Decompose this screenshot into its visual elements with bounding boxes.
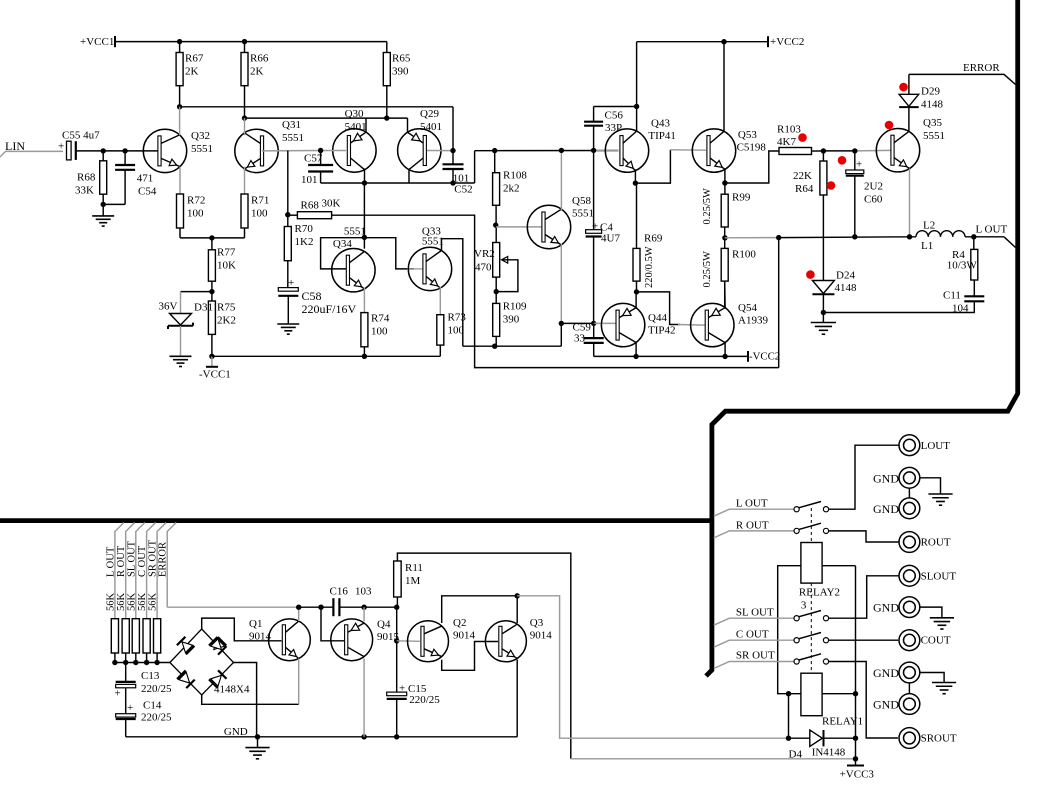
wire relay coil node <box>786 691 791 696</box>
diode D29 4148 <box>908 74 910 94</box>
svg-text:33P: 33P <box>605 122 622 134</box>
wire: to Q4 base <box>321 607 344 641</box>
capacitor C56 33P <box>591 148 596 153</box>
bridge diode top-right <box>214 639 225 650</box>
wire Q29 emitter to rail <box>407 118 409 133</box>
wire Q29 collector <box>408 169 410 184</box>
capacitor C4 4U7 electrolytic <box>593 150 595 229</box>
resistor R73 100 <box>437 315 444 345</box>
wire: mirror node to Q33 base <box>364 238 414 269</box>
wire Q32 collector <box>179 107 181 135</box>
svg-text:471: 471 <box>137 173 154 185</box>
ground (input) <box>101 202 106 207</box>
wire: Q2 base <box>397 640 420 643</box>
wire: drop R OUT <box>126 523 135 619</box>
wire: 56K common node <box>115 662 170 664</box>
capacitor C54 471 <box>124 151 126 165</box>
connector SLOUT <box>899 565 920 586</box>
wire Q35 emitter <box>909 169 911 237</box>
wire Q4 emitter top <box>363 607 365 621</box>
svg-text:Q35: Q35 <box>923 117 942 129</box>
resistor R65 <box>386 42 388 53</box>
svg-text:2U2: 2U2 <box>864 181 883 193</box>
svg-text:220/0.5W: 220/0.5W <box>644 246 655 288</box>
svg-text:-VCC1: -VCC1 <box>199 369 231 381</box>
connector GND 3 <box>899 597 920 618</box>
wire Q31 collector <box>244 118 246 135</box>
svg-text:SROUT: SROUT <box>921 733 957 745</box>
power -VCC2 terminal <box>747 351 749 362</box>
svg-text:5401: 5401 <box>345 121 367 133</box>
transistor Q1 9014 <box>269 619 311 661</box>
svg-text:101: 101 <box>301 174 318 186</box>
svg-text:103: 103 <box>355 586 372 598</box>
svg-text:2K: 2K <box>250 66 264 78</box>
svg-text:Q1: Q1 <box>249 618 262 630</box>
resistor R74 100 <box>361 313 368 347</box>
transistor Q44 TIP42 <box>601 303 644 346</box>
svg-text:5551: 5551 <box>923 130 945 142</box>
wire: detector line y=607 <box>299 606 333 608</box>
svg-text:220/25: 220/25 <box>141 683 172 695</box>
resistor R4 10/3W <box>973 237 975 250</box>
svg-text:220uF/16V: 220uF/16V <box>302 302 357 316</box>
capacitor C14 220/25 <box>125 688 127 714</box>
wire Q30 emitter to rail <box>365 118 367 133</box>
svg-text:C13: C13 <box>141 670 160 682</box>
svg-text:SR OUT: SR OUT <box>736 650 775 662</box>
test point red dot <box>798 133 807 142</box>
svg-text:+VCC1: +VCC1 <box>80 36 114 48</box>
capacitor C15 220/25 electrolytic <box>387 692 407 696</box>
switch R OUT <box>714 531 794 538</box>
svg-text:4148: 4148 <box>835 282 858 294</box>
connector SROUT <box>899 728 920 749</box>
ground (C58) <box>287 296 289 324</box>
switch SL OUT <box>714 618 794 625</box>
capacitor C60 2U2 electrolytic <box>854 151 856 170</box>
svg-text:4U7: 4U7 <box>601 233 620 245</box>
svg-text:C5198: C5198 <box>737 142 767 154</box>
wire Q29 base <box>427 150 453 152</box>
svg-text:+: + <box>856 159 862 171</box>
wire gnd1 <box>920 478 941 494</box>
transistor Q35 5551 <box>876 129 919 172</box>
wire: ERROR line <box>909 74 1016 84</box>
svg-text:56K: 56K <box>126 593 137 612</box>
capacitor C59 33 <box>593 323 595 338</box>
svg-text:470: 470 <box>475 262 492 274</box>
ground (conn1) <box>928 493 952 495</box>
svg-text:Q29: Q29 <box>420 108 439 120</box>
zener diode D31 36V <box>181 291 212 293</box>
svg-text:GND: GND <box>873 666 899 680</box>
test point red dot <box>885 121 894 130</box>
svg-text:R71: R71 <box>251 195 269 207</box>
svg-text:TIP42: TIP42 <box>648 325 676 337</box>
wire: drop SL OUT <box>136 523 145 619</box>
svg-text:R99: R99 <box>732 192 751 204</box>
VR2 wiper <box>502 257 508 264</box>
svg-text:SL OUT: SL OUT <box>736 607 774 619</box>
thick board outline bottom-left <box>0 518 712 523</box>
svg-text:D24: D24 <box>836 270 855 282</box>
transistor Q31 5551 (mirrored) <box>235 129 278 172</box>
svg-text:56K: 56K <box>105 593 116 612</box>
svg-text:R74: R74 <box>371 313 390 325</box>
wire: cascode rail y=118 <box>245 117 408 119</box>
svg-text:C56: C56 <box>605 110 624 122</box>
resistor R66 <box>244 42 246 53</box>
ground (conn3) <box>930 617 954 619</box>
svg-text:100: 100 <box>187 208 204 220</box>
wire Q32 emitter <box>179 167 181 194</box>
wire relay2 left <box>778 566 801 694</box>
node: R77/R75/D31 <box>211 281 213 301</box>
svg-text:2k2: 2k2 <box>503 183 520 195</box>
wire Q34 emitter <box>363 288 365 313</box>
svg-text:L1: L1 <box>921 240 933 252</box>
wire Q4 collector <box>363 659 365 737</box>
svg-text:R100: R100 <box>732 249 756 261</box>
wire: -VCC2 rail <box>594 355 748 357</box>
resistor R75 2K2 <box>208 301 215 334</box>
svg-text:Q32: Q32 <box>191 130 210 142</box>
svg-text:220/25: 220/25 <box>141 712 172 724</box>
wire Q3 emitter <box>516 660 518 737</box>
svg-text:5551: 5551 <box>191 143 213 155</box>
svg-text:390: 390 <box>503 314 520 326</box>
svg-text:+: + <box>592 221 598 233</box>
svg-text:C60: C60 <box>864 194 883 206</box>
svg-text:Q30: Q30 <box>345 108 364 120</box>
svg-text:VR2: VR2 <box>474 248 495 260</box>
svg-text:30K: 30K <box>322 198 341 210</box>
svg-text:C58: C58 <box>302 289 322 303</box>
wire Q54 emitter <box>724 307 726 310</box>
svg-text:5551: 5551 <box>282 132 304 144</box>
svg-text:5551: 5551 <box>572 208 594 220</box>
svg-text:C OUT: C OUT <box>137 545 148 577</box>
transistor Q33 5551 <box>408 247 451 290</box>
svg-text:390: 390 <box>392 66 409 78</box>
transistor Q4 9015 <box>331 619 373 661</box>
ground (conn4) <box>932 682 956 684</box>
wire +VCC2 drop <box>636 42 638 107</box>
transistor Q53 C5198 <box>692 129 735 172</box>
wire Q44 emitter <box>635 343 637 357</box>
svg-text:33: 33 <box>574 333 586 345</box>
wire Q44 collector <box>635 292 637 308</box>
wire Q1 emitter <box>298 659 300 705</box>
transistor Q3 9014 <box>485 621 526 662</box>
svg-text:Q44: Q44 <box>648 312 667 324</box>
connector LOUT <box>899 435 920 456</box>
svg-text:100: 100 <box>448 325 465 337</box>
wire Q58 emitter <box>560 244 562 324</box>
svg-text:+: + <box>127 702 133 714</box>
svg-text:D4: D4 <box>789 749 803 761</box>
wire: bottom GND line <box>126 736 518 738</box>
connector GND 1 <box>899 467 920 488</box>
bridge diode bottom-right <box>211 675 222 686</box>
connector GND 5 <box>899 694 920 715</box>
svg-text:+: + <box>399 683 405 695</box>
wire Q54 collector <box>724 343 726 357</box>
resistor R109 390 <box>493 303 500 336</box>
svg-text:5551: 5551 <box>422 236 444 248</box>
resistor 56K <box>143 619 150 653</box>
wire: VCC3 line <box>571 758 856 760</box>
wire: R108 to Q58 base <box>496 226 542 228</box>
svg-text:1M: 1M <box>405 575 421 587</box>
svg-text:GND: GND <box>873 697 899 711</box>
wire gnd4 <box>920 673 944 683</box>
wire conn gnd link2 <box>908 683 910 694</box>
svg-text:+: + <box>288 277 294 289</box>
svg-text:ERROR: ERROR <box>158 542 169 577</box>
svg-text:+VCC2: +VCC2 <box>770 36 804 48</box>
wire Q58 collector <box>560 150 562 211</box>
resistor R67 <box>179 42 181 53</box>
svg-text:D31: D31 <box>194 302 213 314</box>
node dots on VCC1 rail <box>177 39 182 44</box>
svg-text:Q34: Q34 <box>333 238 352 250</box>
svg-text:A1939: A1939 <box>738 315 768 327</box>
svg-text:33K: 33K <box>75 185 94 197</box>
resistor R108 2k2 <box>492 148 497 153</box>
wire: -VCC1 rail <box>212 355 440 357</box>
svg-text:22K: 22K <box>793 170 812 182</box>
svg-text:56K: 56K <box>137 593 148 612</box>
wire: Q43 emitter to Q53 base <box>635 150 670 183</box>
connector GND 2 <box>899 498 920 519</box>
svg-text:9014: 9014 <box>453 630 476 642</box>
transistor Q43 TIP41 <box>605 129 648 172</box>
svg-text:L OUT: L OUT <box>105 546 116 577</box>
capacitor C52 101 <box>452 151 454 165</box>
wire: R103 node to Q35 base <box>823 150 854 152</box>
svg-text:R70: R70 <box>295 223 314 235</box>
diode bridge 4148X4 <box>170 629 234 695</box>
svg-text:Q53: Q53 <box>738 129 757 141</box>
wire: R11 node down to C15 <box>396 607 398 692</box>
svg-text:1K2: 1K2 <box>295 236 314 248</box>
wire: collector line y=183 <box>321 182 475 184</box>
capacitor C11 104 <box>973 280 975 296</box>
inductor L1/L2 <box>916 231 928 237</box>
wire Q30 collector <box>364 169 366 184</box>
svg-text:R66: R66 <box>250 53 269 65</box>
svg-text:LOUT: LOUT <box>921 440 951 452</box>
wire: L OUT <box>965 236 1004 238</box>
svg-text:R103: R103 <box>777 124 801 136</box>
wire: drop ERROR <box>167 523 176 608</box>
svg-text:R OUT: R OUT <box>736 520 769 532</box>
switch L OUT <box>714 509 794 516</box>
svg-text:L OUT: L OUT <box>976 224 1008 236</box>
svg-text:Q43: Q43 <box>651 118 670 130</box>
svg-text:R65: R65 <box>392 53 411 65</box>
capacitor C16 103 <box>332 598 334 616</box>
wire: Q44 collector to Q54 base <box>637 292 681 325</box>
wire Q31 base to node <box>262 150 321 152</box>
svg-text:Q58: Q58 <box>572 195 591 207</box>
svg-text:R75: R75 <box>217 302 236 314</box>
wire: Q30 collector down to mirror node <box>363 183 365 249</box>
resistor 56K <box>111 619 118 653</box>
svg-text:TIP41: TIP41 <box>648 130 676 142</box>
switch SR OUT <box>714 662 794 669</box>
svg-text:C OUT: C OUT <box>736 629 769 641</box>
svg-text:5551: 5551 <box>344 226 366 238</box>
svg-text:GND: GND <box>873 600 899 614</box>
wire: drop C OUT <box>147 523 156 619</box>
transistor Q34 5551 <box>332 249 375 292</box>
resistor R99 0.25/5W <box>724 183 726 194</box>
wire conn gnd link <box>908 488 910 498</box>
svg-text:9014: 9014 <box>530 630 553 642</box>
wire: +VCC1 rail <box>115 41 387 43</box>
svg-text:R77: R77 <box>217 247 236 259</box>
wire Q43 emitter <box>634 169 636 183</box>
svg-text:0.25/5W: 0.25/5W <box>702 188 713 225</box>
svg-text:Q4: Q4 <box>377 619 391 631</box>
power -VCC1 terminal <box>209 354 214 359</box>
capacitor C57 101 <box>318 148 323 153</box>
svg-text:ERROR: ERROR <box>963 62 1000 74</box>
svg-text:-VCC2: -VCC2 <box>749 350 780 362</box>
svg-text:100: 100 <box>371 326 388 338</box>
wire: Q44 base line <box>561 322 593 324</box>
capacitor C58 220uF/16V electrolytic <box>287 261 289 288</box>
svg-text:Q2: Q2 <box>453 617 466 629</box>
svg-text:R68: R68 <box>77 172 96 184</box>
relay RELAY2 coil <box>801 543 822 584</box>
switch C OUT <box>714 640 794 647</box>
relay RELAY1 coil <box>801 673 822 716</box>
wire Q53 emitter <box>724 170 726 184</box>
connector GND 4 <box>899 662 920 683</box>
wire Q2 collector loop <box>442 596 518 623</box>
wire Q3 collector <box>516 596 518 623</box>
svg-text:10K: 10K <box>217 260 236 272</box>
svg-text:C52: C52 <box>454 184 472 196</box>
svg-text:2K2: 2K2 <box>217 315 236 327</box>
svg-text:Q31: Q31 <box>282 119 301 131</box>
wire gnd3 <box>920 607 942 618</box>
pot VR2 470 <box>493 222 498 227</box>
connector ROUT <box>899 532 920 553</box>
resistor R71 <box>241 194 248 228</box>
svg-text:R67: R67 <box>185 53 204 65</box>
svg-text:GND: GND <box>873 502 899 516</box>
svg-text:4148: 4148 <box>921 99 944 111</box>
svg-text:R109: R109 <box>503 301 527 313</box>
wire: drop L OUT <box>115 523 124 619</box>
wire relay2 right <box>822 565 855 567</box>
wire: bridge right to ground <box>234 663 257 737</box>
svg-text:C55 4u7: C55 4u7 <box>62 130 100 142</box>
test point red dots <box>838 156 847 165</box>
svg-text:Q3: Q3 <box>530 617 544 629</box>
wire: feedback vertical <box>778 238 780 368</box>
svg-text:R68: R68 <box>301 200 320 212</box>
relay dashed link <box>810 508 812 543</box>
wire: node line y=107 from R67 to Q29 branch <box>180 106 453 108</box>
wire: output node line y=237.8 <box>725 237 779 239</box>
svg-text:R11: R11 <box>405 562 423 574</box>
wire: C11 return line <box>823 312 975 314</box>
transistor Q32 5551 <box>143 129 186 172</box>
svg-text:10/3W: 10/3W <box>947 259 978 271</box>
resistor R68 33K <box>102 151 104 161</box>
svg-text:SLOUT: SLOUT <box>921 571 957 583</box>
svg-text:COUT: COUT <box>921 635 951 647</box>
transistor Q54 A1939 <box>691 303 734 346</box>
diode D24 4148 <box>822 195 824 281</box>
resistor R11 1M <box>394 561 402 597</box>
wire: R109 bottom line <box>463 345 562 347</box>
svg-text:R69: R69 <box>644 233 663 245</box>
wire: +VCC2 rail <box>637 41 768 43</box>
svg-text:56K: 56K <box>148 593 159 612</box>
svg-text:C54: C54 <box>138 186 157 198</box>
svg-text:36V: 36V <box>159 301 178 313</box>
wire: drop SR OUT <box>157 523 166 619</box>
svg-text:220/25: 220/25 <box>409 694 440 706</box>
wire: ERROR line to Q1 collector <box>167 606 299 608</box>
svg-text:RELAY2: RELAY2 <box>799 587 840 599</box>
feedback resistor R68 30K (horizontal) <box>285 212 290 217</box>
wire Q30 base <box>321 150 346 152</box>
bridge diode top-left <box>182 642 193 653</box>
wire: bridge bottom stub <box>202 695 299 704</box>
svg-text:R72: R72 <box>187 195 205 207</box>
svg-text:+: + <box>115 688 121 700</box>
resistor 56K <box>132 619 139 653</box>
svg-text:GND: GND <box>224 726 248 738</box>
power +VCC2 terminal <box>767 36 769 47</box>
capacitor C13 220/25 <box>125 663 127 682</box>
wire: node line y=150.5 <box>475 150 619 152</box>
svg-text:Q54: Q54 <box>738 302 757 314</box>
power +VCC3 terminal <box>853 756 858 761</box>
svg-text:C16: C16 <box>330 586 349 598</box>
svg-text:L OUT: L OUT <box>736 498 768 510</box>
svg-text:L2: L2 <box>923 220 935 232</box>
resistor R100 0.25/5W <box>722 235 727 240</box>
ground (D24) <box>822 313 824 323</box>
thick board outline right <box>706 0 1018 676</box>
resistor R103 4K7 (horizontal) <box>725 151 779 183</box>
svg-text:C11: C11 <box>943 290 961 302</box>
svg-text:SL OUT: SL OUT <box>126 540 137 577</box>
wire: bridge top to Q1 base <box>202 618 282 641</box>
transistor Q2 9014 <box>408 621 449 662</box>
svg-text:C14: C14 <box>143 700 162 712</box>
transistor Q30 5401 <box>333 129 376 172</box>
svg-text:104: 104 <box>952 303 969 315</box>
svg-text:RELAY1: RELAY1 <box>822 716 863 728</box>
resistor 56K <box>154 619 161 653</box>
wire Q33 emitter <box>439 287 441 315</box>
svg-text:4K7: 4K7 <box>777 136 796 148</box>
wire Q43 collector <box>636 107 638 132</box>
resistor R77 10K <box>211 238 213 250</box>
wire: corner up to node line <box>474 151 476 183</box>
power +VCC1 terminal <box>114 36 116 47</box>
